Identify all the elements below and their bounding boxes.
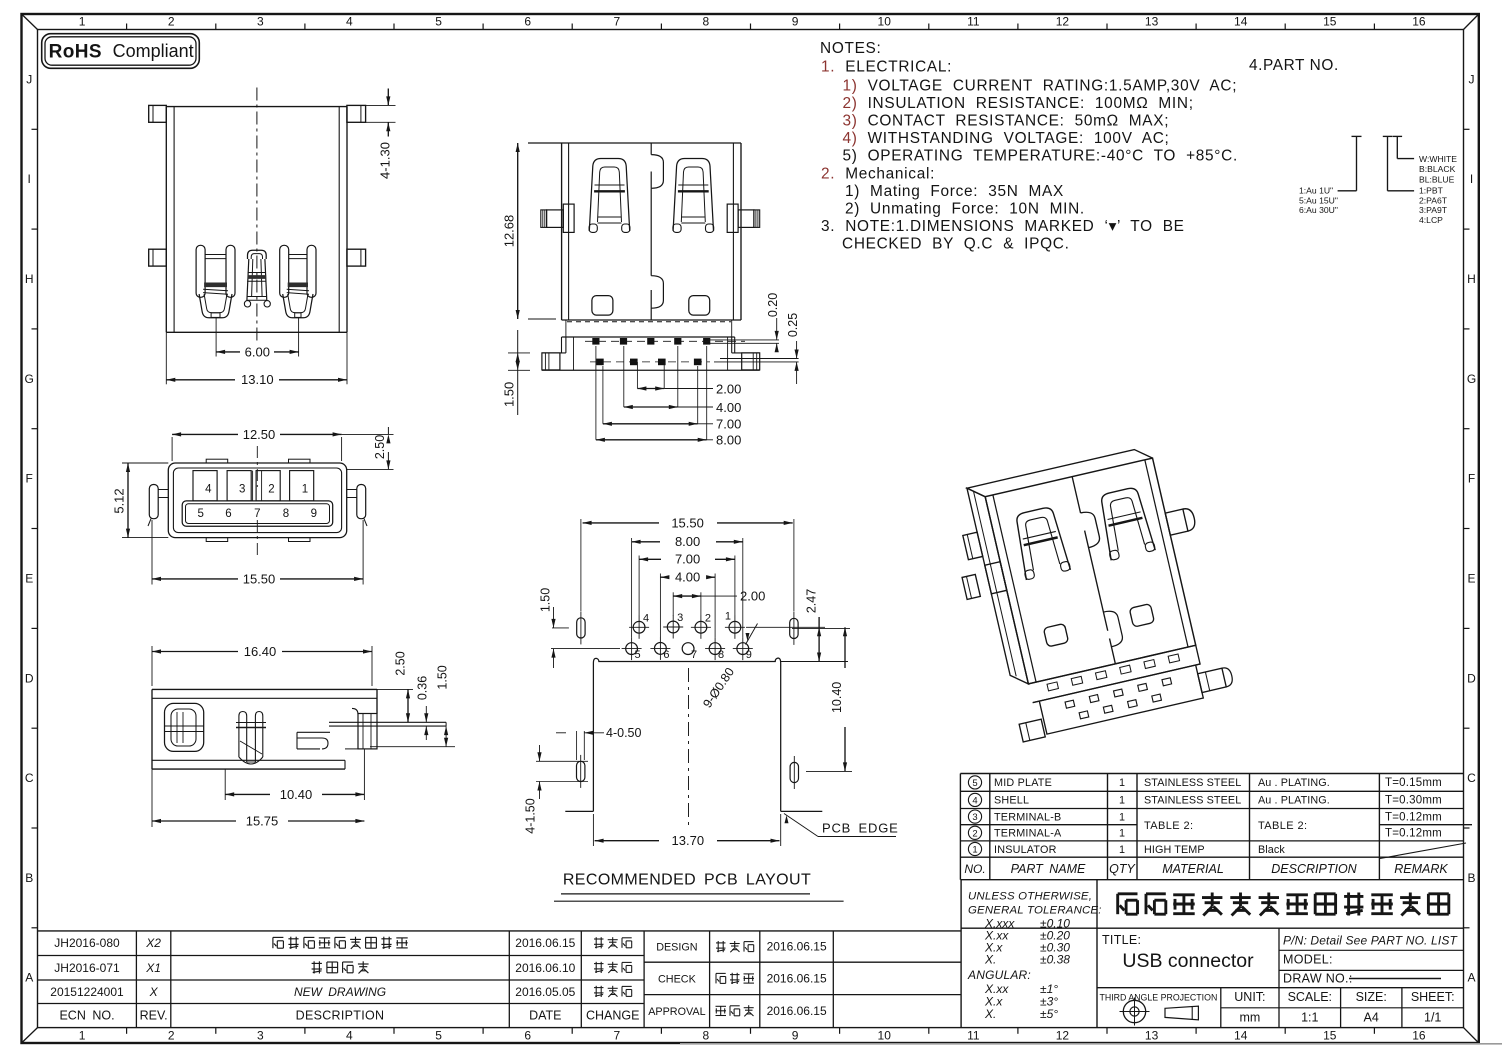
svg-text:2: 2 <box>268 483 274 495</box>
view3 dimension 2.50 <box>347 468 394 470</box>
view2 shell walls <box>528 142 741 144</box>
view2 right spring contact arch <box>673 159 713 232</box>
svg-text:J: J <box>26 72 32 86</box>
svg-text:NO.: NO. <box>964 862 985 876</box>
svg-text:PCB EDGE: PCB EDGE <box>822 821 899 836</box>
svg-text:SHELL: SHELL <box>994 795 1029 807</box>
svg-text:2.50: 2.50 <box>394 651 408 675</box>
svg-text:7.00: 7.00 <box>675 552 700 567</box>
view2 center seam <box>650 143 652 155</box>
view4 dimension 16.40 <box>151 646 153 686</box>
pcb dimension 4-0.50 <box>576 731 578 760</box>
svg-text:12.68: 12.68 <box>502 215 517 248</box>
svg-text:13: 13 <box>1145 1029 1159 1043</box>
svg-text:X.: X. <box>984 1007 996 1021</box>
svg-text:X: X <box>149 985 159 999</box>
view2 dimension 1.50 <box>517 330 519 415</box>
svg-text:C: C <box>25 771 34 785</box>
pcb pin holes row 1-4 <box>633 621 645 633</box>
svg-text:H: H <box>25 272 34 286</box>
svg-text:4: 4 <box>346 15 353 29</box>
pcb layout center line <box>688 668 690 830</box>
svg-text:DESCRIPTION: DESCRIPTION <box>1271 862 1357 876</box>
svg-text:G: G <box>25 372 34 386</box>
svg-text:1: 1 <box>972 845 977 856</box>
svg-text:INSULATOR: INSULATOR <box>994 844 1057 856</box>
view4 left latch <box>165 703 204 751</box>
svg-text:2: 2 <box>168 1029 175 1043</box>
view3 bottom tabs <box>206 538 228 542</box>
svg-text:mm: mm <box>1239 1011 1260 1025</box>
view1 dimension 6.00 <box>215 318 217 357</box>
svg-text:APPROVAL: APPROVAL <box>648 1006 705 1018</box>
svg-text:DESCRIPTION: DESCRIPTION <box>296 1008 385 1022</box>
svg-text:4) WITHSTANDING VOLTAGE: 100V: 4) WITHSTANDING VOLTAGE: 100V AC; <box>843 130 1170 147</box>
view3 right mounting leg <box>357 485 366 519</box>
pcb dimension 1.50 left <box>551 648 620 650</box>
svg-text:1:Au 1U": 1:Au 1U" <box>1299 186 1333 196</box>
svg-text:5) OPERATING TEMPERATURE:-40°C: 5) OPERATING TEMPERATURE:-40°C TO +85°C. <box>843 148 1238 165</box>
svg-text:13: 13 <box>1145 15 1159 29</box>
svg-text:15: 15 <box>1323 1029 1337 1043</box>
svg-text:7: 7 <box>254 508 260 520</box>
pcb top oval slots <box>577 618 585 638</box>
svg-text:2:PA6T: 2:PA6T <box>1419 195 1448 205</box>
svg-text:2. Mechanical:: 2. Mechanical: <box>821 166 935 183</box>
svg-text:0.20: 0.20 <box>766 293 780 317</box>
svg-text:CHANGE: CHANGE <box>586 1008 639 1022</box>
view3 center line vertical <box>256 446 258 487</box>
svg-text:15.50: 15.50 <box>243 571 276 586</box>
svg-text:QTY: QTY <box>1109 862 1136 876</box>
svg-text:2.00: 2.00 <box>740 589 765 604</box>
view4 dimension 15.75 <box>151 769 153 827</box>
pcb layout bottom steps <box>565 810 593 812</box>
view4 body outline <box>152 688 377 690</box>
svg-text:1.50: 1.50 <box>435 665 449 689</box>
svg-text:P/N: Detail See PART NO. LIST: P/N: Detail See PART NO. LIST <box>1283 934 1458 948</box>
svg-text:10: 10 <box>878 15 892 29</box>
view4 right clip <box>297 731 330 733</box>
svg-text:E: E <box>25 572 33 586</box>
svg-text:10.40: 10.40 <box>830 682 844 713</box>
view1 mounting tabs <box>149 105 167 122</box>
svg-text:G: G <box>1467 372 1476 386</box>
svg-text:7: 7 <box>691 649 697 661</box>
svg-text:TERMINAL-B: TERMINAL-B <box>994 811 1061 823</box>
view3 tongue bar <box>182 501 333 526</box>
view4 middle contact <box>238 716 240 757</box>
svg-text:X2: X2 <box>145 936 161 950</box>
svg-text:2.00: 2.00 <box>716 381 741 396</box>
view3 dimension 15.50 <box>151 520 153 585</box>
svg-text:A: A <box>25 971 33 985</box>
svg-text:6: 6 <box>524 1029 531 1043</box>
view3 shell outline <box>168 463 346 538</box>
svg-text:T=0.30mm: T=0.30mm <box>1385 795 1442 807</box>
svg-text:1: 1 <box>1119 777 1125 789</box>
svg-text:STAINLESS STEEL: STAINLESS STEEL <box>1144 795 1241 807</box>
svg-text:8: 8 <box>703 15 710 29</box>
svg-text:4-1.30: 4-1.30 <box>378 142 393 179</box>
svg-text:11: 11 <box>967 15 980 29</box>
svg-text:D: D <box>1467 671 1476 685</box>
view2 upper pin row <box>592 338 599 345</box>
svg-text:16: 16 <box>1412 1029 1426 1043</box>
svg-text:B: B <box>25 871 33 885</box>
view2 left spring contact arch <box>589 159 629 232</box>
svg-text:4:LCP: 4:LCP <box>1419 215 1443 225</box>
svg-text:1: 1 <box>1119 811 1125 823</box>
svg-text:12.50: 12.50 <box>243 427 276 442</box>
svg-text:3:PA9T: 3:PA9T <box>1419 205 1448 215</box>
view2 bottom dimples <box>592 296 613 316</box>
svg-text:10.40: 10.40 <box>280 787 313 802</box>
svg-text:6.00: 6.00 <box>245 344 270 359</box>
view2 dimension 8.00 <box>595 346 597 440</box>
pcb dimension 15.50 <box>583 522 659 524</box>
view2 dimension 7.00 <box>602 366 604 424</box>
svg-text:PART NAME: PART NAME <box>1011 862 1086 876</box>
svg-text:JH2016-071: JH2016-071 <box>54 961 120 975</box>
svg-text:MATERIAL: MATERIAL <box>1162 862 1224 876</box>
pcb dimension 13.70 <box>592 814 594 846</box>
svg-text:I: I <box>1470 172 1473 186</box>
svg-text:5: 5 <box>435 1029 442 1043</box>
svg-text:F: F <box>1468 472 1475 486</box>
svg-text:12: 12 <box>1056 1029 1070 1043</box>
RoHS Compliant label <box>42 34 200 69</box>
svg-text:STAINLESS STEEL: STAINLESS STEEL <box>1144 777 1241 789</box>
svg-text:4.00: 4.00 <box>716 400 741 415</box>
svg-text:NOTES:: NOTES: <box>820 40 882 57</box>
svg-text:11: 11 <box>967 1029 980 1043</box>
svg-text:9: 9 <box>792 15 799 29</box>
svg-text:8.00: 8.00 <box>675 534 700 549</box>
svg-text:2016.06.15: 2016.06.15 <box>767 940 827 954</box>
pcb dimension 10.40 right <box>806 770 852 772</box>
view1 dimension 13.10 <box>165 332 167 384</box>
svg-text:F: F <box>26 472 33 486</box>
svg-text:2) Unmating Force: 10N MIN.: 2) Unmating Force: 10N MIN. <box>845 201 1085 218</box>
pcb dimension 4-1.50 <box>536 760 588 762</box>
svg-text:Black: Black <box>1258 844 1285 856</box>
svg-text:10: 10 <box>878 1029 892 1043</box>
svg-text:3. NOTE:1.DIMENSIONS MARKED ‘▾: 3. NOTE:1.DIMENSIONS MARKED ‘▾’ TO BE <box>821 218 1185 235</box>
svg-text:1: 1 <box>1119 828 1125 840</box>
svg-text:2016.06.10: 2016.06.10 <box>515 961 575 975</box>
svg-text:9: 9 <box>746 649 752 661</box>
svg-text:6: 6 <box>524 15 531 29</box>
svg-text:E: E <box>1467 572 1475 586</box>
svg-text:SIZE:: SIZE: <box>1356 990 1387 1004</box>
svg-text:UNIT:: UNIT: <box>1234 990 1265 1004</box>
view3 pin slots row <box>193 471 217 501</box>
svg-text:2) INSULATION RESISTANCE: 100M: 2) INSULATION RESISTANCE: 100MΩ MIN; <box>843 95 1194 112</box>
company name (CJK) <box>1116 894 1119 914</box>
pcb edge label <box>784 814 818 837</box>
svg-text:2016.06.15: 2016.06.15 <box>767 1004 827 1018</box>
svg-text:2016.06.15: 2016.06.15 <box>767 971 827 985</box>
view1 dimension 4-1.30 <box>347 104 396 106</box>
svg-text:5: 5 <box>435 15 442 29</box>
svg-text:4-0.50: 4-0.50 <box>606 726 641 740</box>
view2 lower pin row <box>596 359 604 366</box>
svg-text:2: 2 <box>168 15 175 29</box>
svg-text:CHECKED BY Q.C & IPQC.: CHECKED BY Q.C & IPQC. <box>842 236 1070 253</box>
svg-text:UNLESS OTHERWISE,: UNLESS OTHERWISE, <box>968 891 1092 903</box>
svg-text:HIGH TEMP: HIGH TEMP <box>1144 844 1205 856</box>
svg-text:THIRD ANGLE PROJECTION: THIRD ANGLE PROJECTION <box>1100 993 1218 1003</box>
svg-text:Compliant: Compliant <box>113 41 194 61</box>
svg-text:1: 1 <box>79 15 86 29</box>
svg-text:8: 8 <box>703 1029 710 1043</box>
svg-text:14: 14 <box>1234 15 1248 29</box>
view1 center contact <box>248 250 267 259</box>
pcb dimension 8.00 <box>632 541 660 543</box>
svg-text:TABLE 2:: TABLE 2: <box>1144 820 1193 832</box>
view2 side tabs <box>563 204 574 232</box>
svg-text:13.70: 13.70 <box>672 833 705 848</box>
isometric 3d view of connector <box>943 440 1236 747</box>
svg-text:4.PART NO.: 4.PART NO. <box>1249 57 1339 74</box>
svg-text:8: 8 <box>718 649 724 661</box>
svg-text:DESIGN: DESIGN <box>656 942 697 954</box>
svg-text:0.25: 0.25 <box>786 313 800 337</box>
pcb dimension 4.00 <box>660 576 668 578</box>
svg-text:W:WHITE: W:WHITE <box>1419 154 1457 164</box>
view4 dimension 10.40 <box>224 769 226 800</box>
svg-text:15.75: 15.75 <box>246 813 279 828</box>
svg-text:1:1: 1:1 <box>1301 1011 1318 1025</box>
svg-text:ECN NO.: ECN NO. <box>59 1008 114 1022</box>
svg-text:5: 5 <box>635 649 641 661</box>
svg-text:USB connector: USB connector <box>1122 950 1254 972</box>
svg-text:GENERAL TOLERANCE:: GENERAL TOLERANCE: <box>968 905 1102 917</box>
svg-text:TABLE 2:: TABLE 2: <box>1258 820 1307 832</box>
svg-text:T=0.12mm: T=0.12mm <box>1385 828 1442 840</box>
svg-text:1: 1 <box>1119 795 1125 807</box>
svg-text:3) CONTACT RESISTANCE: 50mΩ MA: 3) CONTACT RESISTANCE: 50mΩ MAX; <box>843 113 1170 130</box>
svg-text:TERMINAL-A: TERMINAL-A <box>994 828 1062 840</box>
svg-text:8: 8 <box>283 508 289 520</box>
svg-text:2016.06.15: 2016.06.15 <box>515 936 575 950</box>
parts list table <box>959 774 961 880</box>
svg-text:±5°: ±5° <box>1040 1007 1058 1021</box>
svg-text:A4: A4 <box>1364 1011 1379 1025</box>
svg-text:2016.05.05: 2016.05.05 <box>515 985 575 999</box>
svg-text:1) VOLTAGE CURRENT RATING:1.5A: 1) VOLTAGE CURRENT RATING:1.5AMP,30V AC; <box>843 78 1238 95</box>
svg-text:1. ELECTRICAL:: 1. ELECTRICAL: <box>821 59 952 76</box>
svg-text:2.47: 2.47 <box>805 589 819 613</box>
svg-text:14: 14 <box>1234 1029 1248 1043</box>
svg-text:SCALE:: SCALE: <box>1288 990 1332 1004</box>
svg-text:15.50: 15.50 <box>671 515 704 530</box>
view2 dimension 0.20 <box>708 339 779 341</box>
view3 dimension 5.12 <box>122 462 168 464</box>
svg-text:3: 3 <box>239 483 245 495</box>
svg-text:REMARK: REMARK <box>1394 862 1448 876</box>
view1 top view shell outline <box>166 106 347 108</box>
pcb hole diameter label 9-Ø0.80 <box>746 624 758 645</box>
part number legend bracket 1 <box>1352 135 1362 137</box>
svg-text:4.00: 4.00 <box>675 570 700 585</box>
svg-text:ANGULAR:: ANGULAR: <box>967 968 1031 982</box>
svg-text:I: I <box>28 172 31 186</box>
parts table circled item numbers <box>968 776 981 789</box>
svg-text:7: 7 <box>613 15 620 29</box>
svg-text:B:BLACK: B:BLACK <box>1419 164 1456 174</box>
svg-text:12: 12 <box>1056 15 1070 29</box>
svg-text:RoHS: RoHS <box>49 42 102 63</box>
view2 dimension 2.00 <box>636 362 638 389</box>
view2 dimension 4.00 <box>623 346 625 407</box>
svg-text:Au . PLATING.: Au . PLATING. <box>1258 777 1330 789</box>
pcb dimension 2.00 <box>673 595 701 597</box>
parts table remark diagonal <box>1380 843 1466 859</box>
svg-text:X.: X. <box>984 953 996 967</box>
svg-text:B: B <box>1467 871 1475 885</box>
svg-text:9: 9 <box>792 1029 799 1043</box>
view4 foot block <box>358 714 377 749</box>
pcb pin holes row 5-9 <box>626 643 638 655</box>
svg-text:Au . PLATING.: Au . PLATING. <box>1258 795 1330 807</box>
svg-text:T=0.12mm: T=0.12mm <box>1385 811 1442 823</box>
svg-text:2.50: 2.50 <box>373 435 387 459</box>
svg-text:4: 4 <box>972 796 977 807</box>
svg-text:7.00: 7.00 <box>716 417 741 432</box>
view3 dimension 12.50 <box>171 437 173 461</box>
svg-text:5:Au 15U": 5:Au 15U" <box>1299 195 1338 205</box>
svg-text:3: 3 <box>677 612 683 624</box>
svg-text:D: D <box>25 671 34 685</box>
svg-text:1/1: 1/1 <box>1424 1011 1441 1025</box>
svg-text:REV.: REV. <box>140 1008 168 1022</box>
svg-text:1: 1 <box>725 610 731 622</box>
svg-text:4: 4 <box>205 483 212 495</box>
svg-text:15: 15 <box>1323 15 1337 29</box>
svg-text:0.36: 0.36 <box>416 676 430 700</box>
view2 lower plate and feet <box>561 337 563 353</box>
svg-text:16: 16 <box>1412 15 1426 29</box>
svg-text:BL:BLUE: BL:BLUE <box>1419 174 1455 184</box>
svg-text:CHECK: CHECK <box>658 973 697 985</box>
pcb extension lines vertical <box>580 519 582 611</box>
svg-text:4: 4 <box>643 612 649 624</box>
revision table grid <box>38 930 962 932</box>
svg-text:C: C <box>1467 771 1476 785</box>
view3 left mounting leg <box>149 485 158 519</box>
pcb dimension 2.47 right <box>746 626 825 628</box>
svg-text:1.50: 1.50 <box>502 382 517 407</box>
svg-text:6: 6 <box>663 649 669 661</box>
svg-text:3: 3 <box>257 15 264 29</box>
view2 dimension 0.25 <box>720 358 799 360</box>
title block grid <box>960 880 962 1028</box>
svg-text:3: 3 <box>972 812 977 823</box>
svg-text:3: 3 <box>257 1029 264 1043</box>
view2 crimp band <box>562 319 741 321</box>
svg-text:X1: X1 <box>145 961 161 975</box>
part number legend bracket 2 <box>1383 135 1393 137</box>
svg-text:13.10: 13.10 <box>241 372 274 387</box>
svg-text:J: J <box>1469 72 1475 86</box>
svg-text:2: 2 <box>972 828 977 839</box>
svg-text:1) Mating Force: 35N MAX: 1) Mating Force: 35N MAX <box>845 183 1064 200</box>
pcb layout board outline <box>593 658 780 811</box>
svg-text:7: 7 <box>613 1029 620 1043</box>
scan artifact line <box>680 1043 1502 1045</box>
svg-text:1:PBT: 1:PBT <box>1419 186 1444 196</box>
svg-text:H: H <box>1467 272 1476 286</box>
pcb dimension 7.00 <box>639 558 661 560</box>
svg-text:5: 5 <box>972 778 977 789</box>
view1 right contact claw <box>280 245 289 297</box>
svg-text:8.00: 8.00 <box>716 433 741 448</box>
svg-text:5: 5 <box>197 508 203 520</box>
svg-text:1: 1 <box>1119 844 1125 856</box>
svg-text:NEW DRAWING: NEW DRAWING <box>294 985 386 999</box>
pcb bottom oval slots <box>577 761 585 781</box>
svg-text:4: 4 <box>346 1029 353 1043</box>
svg-text:JH2016-080: JH2016-080 <box>54 936 120 950</box>
view3 top tabs <box>206 459 228 463</box>
svg-text:MODEL:: MODEL: <box>1283 953 1333 967</box>
view1 left contact claw <box>196 245 205 297</box>
svg-text:6: 6 <box>225 508 231 520</box>
border corner diagonals <box>22 14 38 30</box>
svg-text:6:Au 30U": 6:Au 30U" <box>1299 205 1338 215</box>
view2 dimension 12.68 <box>528 318 556 320</box>
svg-text:9: 9 <box>311 508 317 520</box>
svg-text:T=0.15mm: T=0.15mm <box>1385 777 1442 789</box>
view4 solder tail <box>329 721 446 723</box>
svg-text:DATE: DATE <box>529 1008 561 1022</box>
svg-text:1.50: 1.50 <box>539 588 553 612</box>
svg-text:±0.38: ±0.38 <box>1040 953 1070 967</box>
view4 dimension 1.50 <box>370 746 455 748</box>
view4 dimension 2.50 right <box>377 688 413 690</box>
svg-text:20151224001: 20151224001 <box>50 985 124 999</box>
svg-text:5.12: 5.12 <box>112 488 127 513</box>
svg-text:1: 1 <box>79 1029 86 1043</box>
svg-text:4-1.50: 4-1.50 <box>524 798 538 833</box>
svg-text:MID PLATE: MID PLATE <box>994 777 1052 789</box>
svg-text:2: 2 <box>705 612 711 624</box>
view1 center line <box>256 88 258 343</box>
svg-text:A: A <box>1467 971 1475 985</box>
svg-text:DRAW NO.:: DRAW NO.: <box>1283 972 1353 986</box>
svg-text:1: 1 <box>302 483 308 495</box>
svg-text:SHEET:: SHEET: <box>1411 990 1455 1004</box>
svg-text:RECOMMENDED PCB LAYOUT: RECOMMENDED PCB LAYOUT <box>563 872 811 889</box>
svg-text:TITLE:: TITLE: <box>1102 933 1141 947</box>
view4 dimension 0.36 <box>425 706 427 722</box>
svg-text:16.40: 16.40 <box>244 644 277 659</box>
